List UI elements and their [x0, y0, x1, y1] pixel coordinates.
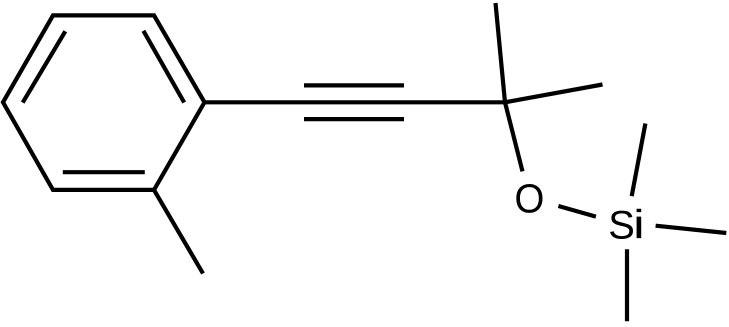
triple bond lower line	[304, 117, 404, 121]
bond O to Si	[558, 206, 596, 217]
Si methyl up	[632, 124, 646, 197]
atom label O	[516, 184, 542, 213]
double bond inner line upper-left edge	[23, 31, 66, 102]
double bond inner line upper-right edge	[143, 31, 184, 103]
triple bond upper line	[304, 83, 404, 87]
quaternary carbon methyl up-right	[505, 85, 603, 103]
Si methyl down	[625, 249, 629, 321]
Si methyl right	[656, 226, 727, 233]
bond C to O	[505, 102, 523, 171]
benzene ring outline	[3, 15, 205, 190]
ring methyl bond	[154, 190, 203, 274]
double bond inner line bottom edge	[63, 170, 145, 174]
atom label Si	[610, 209, 641, 239]
chain bond ring to quaternary carbon (through alkyne)	[205, 100, 506, 104]
quaternary carbon methyl up	[496, 3, 506, 102]
